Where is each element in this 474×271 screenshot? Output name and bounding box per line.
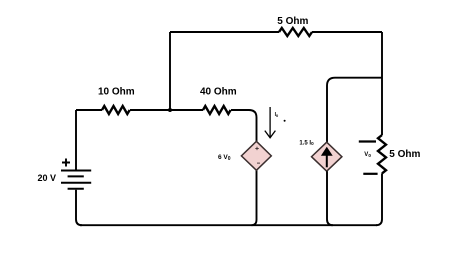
current arrow I0 (open arrow pointing down) (265, 107, 276, 138)
battery V1 plus sign (62, 159, 70, 167)
dependent voltage source branch lower wire (252, 170, 257, 225)
wire top-right horizontal segment (312, 31, 382, 33)
wire top-left horizontal segment (170, 31, 279, 33)
svg-text:6 V0: 6 V0 (218, 154, 231, 162)
wire battery bottom stem with rounded corner to bottom wire (76, 190, 82, 225)
polarity bar bottom (v0) (363, 173, 377, 175)
dependent current source U2 (diamond) (312, 142, 342, 171)
node junction dot (168, 108, 172, 112)
wire middle-center horizontal segment (130, 109, 203, 111)
wire connector from right branch to current source branch (rounded corner) (327, 78, 382, 143)
polarity bar top (v0) (359, 140, 376, 142)
svg-text:1.5 I0: 1.5 I0 (299, 140, 314, 146)
svg-text:5 Ohm: 5 Ohm (389, 149, 420, 160)
current source branch lower wire (327, 171, 333, 225)
stray dot mark (284, 120, 286, 122)
resistor 5 Ohm (right, vertical) (378, 135, 386, 173)
battery long plate 2 (61, 182, 91, 184)
wire left vertical from middle wire to battery (75, 110, 77, 170)
wire right vertical lower segment with rounded corner (376, 173, 382, 225)
wire left drop from top wire to middle wire (169, 32, 171, 110)
svg-text:20 V: 20 V (38, 173, 57, 183)
wire right vertical upper segment (381, 32, 383, 135)
wire bottom horizontal segment (80, 224, 377, 226)
svg-text:5 Ohm: 5 Ohm (277, 16, 308, 27)
resistor 40 Ohm (203, 106, 231, 114)
wire middle-left horizontal segment (76, 109, 102, 111)
battery 20 V long plate 1 (61, 170, 91, 172)
svg-text:10 Ohm: 10 Ohm (98, 87, 135, 98)
polarity minus inside diamond (257, 162, 260, 164)
resistor 10 Ohm (102, 106, 130, 114)
polarity plus inside diamond (255, 147, 258, 150)
battery short plate 2 (68, 188, 84, 190)
resistor 5 Ohm (top) (279, 28, 312, 36)
wire from 40 Ohm into dependent source branch (rounded corner) (231, 110, 257, 141)
svg-text:40 Ohm: 40 Ohm (200, 87, 237, 98)
dependent voltage source U1 (diamond) (241, 141, 271, 170)
svg-text:V0: V0 (364, 152, 371, 158)
battery short plate 1 (68, 175, 84, 177)
arrow inside current source (326, 155, 328, 168)
